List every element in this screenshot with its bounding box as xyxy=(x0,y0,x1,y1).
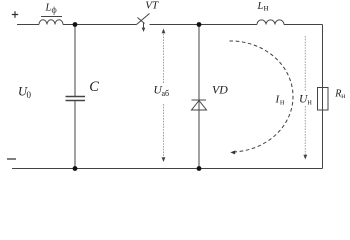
svg-text:L: L xyxy=(257,1,264,12)
svg-text:C: C xyxy=(89,79,99,95)
svg-text:ф: ф xyxy=(52,6,57,15)
svg-text:н: н xyxy=(341,91,345,100)
svg-text:н: н xyxy=(280,98,285,107)
svg-text:н: н xyxy=(308,97,313,106)
svg-text:VT: VT xyxy=(145,0,159,11)
svg-text:0: 0 xyxy=(27,90,32,100)
svg-text:L: L xyxy=(45,3,52,14)
svg-text:аб: аб xyxy=(162,89,170,98)
svg-text:н: н xyxy=(264,2,269,12)
svg-text:VD: VD xyxy=(212,82,228,96)
